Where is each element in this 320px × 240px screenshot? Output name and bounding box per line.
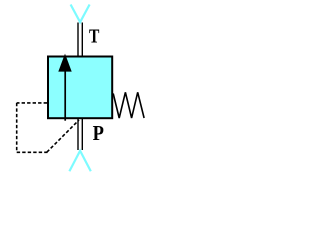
pilot line dashed horizontal upper	[17, 102, 47, 104]
pilot line dashed horizontal lower	[17, 151, 48, 153]
port marker bottom (open connection inverted V)	[69, 151, 90, 171]
wire T line right	[81, 23, 83, 58]
wire T line left	[77, 23, 79, 58]
svg-text:P: P	[93, 121, 104, 145]
spring	[113, 92, 144, 118]
svg-text:T: T	[89, 26, 100, 48]
pilot line dashed diagonal to P port	[47, 120, 79, 152]
pilot line dashed vertical left	[16, 103, 18, 152]
flow path arrowhead	[58, 54, 71, 72]
wire P line left	[77, 118, 79, 150]
wire P line right	[81, 118, 83, 150]
flow path arrow stem	[64, 70, 66, 121]
port marker top (open connection V)	[71, 5, 90, 23]
valve body square	[48, 57, 112, 119]
